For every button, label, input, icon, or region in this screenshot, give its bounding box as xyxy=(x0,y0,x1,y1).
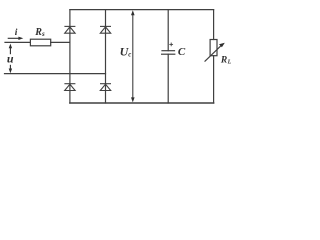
diode D3 xyxy=(64,84,75,91)
wire top rail xyxy=(70,9,214,11)
voltage arrow Uc xyxy=(131,10,135,102)
svg-text:u: u xyxy=(7,51,14,65)
capacitor C xyxy=(167,10,169,51)
wire right bridge branch xyxy=(105,10,107,103)
voltage u arrows xyxy=(9,44,12,74)
wire bottom input xyxy=(5,73,106,75)
svg-text:i: i xyxy=(15,28,18,38)
diode D2 xyxy=(100,26,111,33)
diode D1 xyxy=(64,26,75,33)
resistor RL (variable) xyxy=(213,10,215,40)
svg-text:Rs: Rs xyxy=(34,27,45,38)
wire left bridge branch xyxy=(69,10,71,103)
svg-text:RL: RL xyxy=(220,56,231,66)
arrow head of RL arrow xyxy=(219,43,225,48)
resistor Rs xyxy=(30,39,50,46)
svg-text:C: C xyxy=(178,46,186,58)
wire top input xyxy=(5,41,30,43)
svg-text:Uc: Uc xyxy=(120,45,132,59)
wire bottom rail xyxy=(70,102,214,104)
current arrow i xyxy=(8,37,24,40)
diode D4 xyxy=(100,84,111,91)
